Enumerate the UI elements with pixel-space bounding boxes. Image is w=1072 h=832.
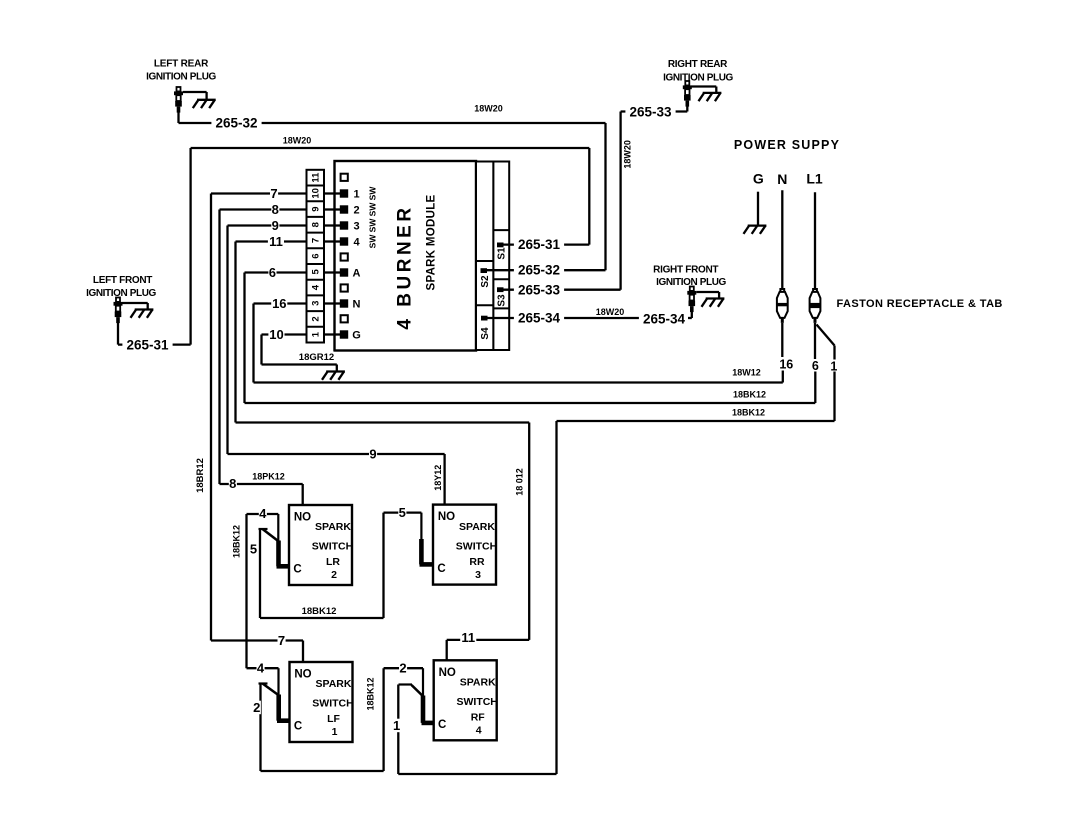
label 4 (LR) — [259, 507, 267, 521]
label 11 (at connector) — [268, 235, 284, 249]
svg-text:2: 2 — [253, 700, 260, 715]
svg-text:3: 3 — [311, 301, 322, 306]
svg-text:LR: LR — [326, 556, 340, 568]
label RIGHT FRONT — [653, 265, 726, 289]
svg-text:C: C — [438, 719, 446, 731]
label 8 (at connector) — [271, 203, 279, 217]
svg-text:18BR12: 18BR12 — [195, 458, 206, 493]
wire 16: horizontal into connector — [254, 302, 307, 304]
wire 9: horizontal into connector — [228, 224, 307, 226]
module output column (outer: S1/S3) — [493, 162, 509, 351]
svg-text:SW: SW — [368, 202, 378, 217]
label 10 (at connector) — [268, 328, 284, 342]
wire: left rear plug collar to ground — [183, 91, 207, 93]
svg-text:18GR12: 18GR12 — [299, 352, 334, 363]
wire 265-31: horizontal run y=148 — [191, 147, 590, 149]
switch lever RF (pivot tick + blade) — [399, 685, 424, 697]
svg-text:4 BURNER: 4 BURNER — [395, 204, 416, 329]
wire: L1 terminal down to faston — [814, 192, 816, 289]
svg-text:G: G — [352, 329, 361, 341]
wire 16: vertical run x=253.5 — [252, 304, 254, 383]
label LEFT FRONT — [86, 275, 156, 299]
label 265-33 (top) — [625, 105, 675, 119]
module output column (inner: S2/S4) — [476, 162, 493, 351]
svg-text:8: 8 — [311, 222, 322, 227]
svg-text:265-34: 265-34 — [643, 311, 686, 326]
switch box RF (SPARK SWITCH RF 4) — [434, 660, 497, 740]
pin S4 — [481, 316, 488, 321]
svg-text:3: 3 — [353, 220, 359, 232]
wire 8: corner to LR switch NO — [220, 483, 303, 485]
svg-text:4: 4 — [353, 236, 360, 248]
svg-text:7: 7 — [270, 186, 277, 201]
ground (module G pin, 18GR12) — [322, 372, 345, 380]
wire: RF terminal 2 — [384, 667, 423, 669]
wire: connector cell 5 to module pin — [324, 271, 340, 273]
svg-text:8: 8 — [229, 476, 236, 491]
svg-text:2: 2 — [311, 316, 322, 321]
wire 9: corner to RR switch NO (18Y12) — [228, 453, 445, 455]
wire 7: vertical run x=211 — [210, 194, 212, 641]
svg-text:N: N — [777, 171, 787, 187]
svg-text:NO: NO — [438, 511, 455, 523]
svg-text:SW: SW — [368, 186, 378, 201]
label 6 (at connector) — [268, 266, 276, 280]
svg-text:18W20: 18W20 — [596, 307, 625, 317]
node label 6 — [811, 359, 819, 372]
ignition plug LR (left rear) — [174, 87, 183, 113]
label 265-32 (top left) — [211, 116, 261, 130]
pin S3 — [497, 287, 504, 292]
svg-text:11: 11 — [311, 172, 322, 183]
svg-text:5: 5 — [311, 268, 322, 274]
ground (power supply G) — [744, 226, 767, 234]
wire 10: horizontal into connector — [262, 333, 307, 335]
wire: N faston to node 16 — [781, 323, 783, 357]
wire 265-32: vertical drop to S2 output — [604, 123, 606, 270]
svg-text:RIGHT FRONT: RIGHT FRONT — [653, 265, 718, 276]
svg-text:2: 2 — [331, 569, 337, 581]
wire 265-31: S1 output — [504, 243, 590, 245]
wire: L1 faston stub down — [814, 323, 816, 359]
ground (left front plug) — [131, 310, 154, 318]
label 1 (RF) — [393, 719, 401, 733]
wire: right rear plug tip down — [686, 106, 688, 111]
wire: left rear plug tip down — [177, 112, 179, 123]
wire 8: vertical run x=219.5 — [218, 210, 220, 485]
op module: 4 BURNER SPARK MODULE box — [335, 161, 477, 351]
pin (module, row 3, connected) — [340, 299, 348, 307]
label 9 (at connector) — [271, 219, 279, 233]
switch box RR (SPARK SWITCH RR 3) — [433, 505, 496, 585]
wire 18BK12: LR terminal 4 vertical (shared with LF) — [245, 514, 247, 668]
pin (module, row 4, open) — [341, 284, 348, 291]
svg-text:18BK12: 18BK12 — [732, 408, 765, 418]
wire 7: bottom horizontal to LF switch NO — [211, 639, 303, 641]
svg-text:4: 4 — [259, 506, 267, 521]
wire 265-33: plug tip to corner — [621, 110, 688, 112]
svg-text:11: 11 — [461, 630, 475, 645]
label 11 — [460, 631, 476, 645]
label 5 (RR) — [398, 506, 406, 520]
label 18GR12 — [299, 352, 334, 362]
wire 7: horizontal into connector — [211, 192, 307, 194]
label 9 — [369, 447, 377, 461]
wire 10: vertical run x=261.5 — [260, 335, 262, 365]
wire: RR terminal 5 — [384, 511, 422, 513]
label 265-32 (module output) — [514, 263, 564, 277]
wire 265-34: S4 output to right front plug — [487, 317, 688, 319]
svg-text:N: N — [353, 298, 361, 310]
wire: connector cell 1 to module pin — [324, 333, 340, 335]
ground (left rear plug) — [193, 100, 216, 108]
svg-text:10: 10 — [311, 188, 322, 199]
svg-text:10: 10 — [269, 327, 283, 342]
svg-text:265-32: 265-32 — [518, 263, 560, 278]
svg-text:SPARK: SPARK — [460, 677, 496, 689]
wire: G terminal down — [757, 192, 759, 225]
svg-text:6: 6 — [311, 254, 322, 259]
label 8 — [229, 477, 237, 491]
svg-text:RR: RR — [469, 556, 485, 568]
svg-text:IGNITION PLUG: IGNITION PLUG — [663, 73, 733, 84]
ground (right rear plug) — [699, 93, 722, 101]
svg-text:SPARK: SPARK — [316, 678, 352, 690]
svg-text:NO: NO — [439, 667, 456, 679]
svg-text:16: 16 — [272, 296, 286, 311]
label 265-31 (bottom left) — [122, 338, 172, 352]
pin (module, row 7, connected) — [340, 237, 348, 245]
svg-text:RF: RF — [471, 712, 486, 724]
switch box LF (SPARK SWITCH LF 1) — [290, 662, 353, 742]
svg-text:18BK12: 18BK12 — [366, 677, 376, 710]
svg-text:4: 4 — [311, 284, 322, 290]
wire 265-33: vertical drop to S3 output, labeled 18W20 — [619, 112, 621, 290]
wire 265-31: vertical drop to S1 output — [588, 148, 590, 245]
wire: LR terminal 4 — [247, 513, 279, 515]
wire 6: horizontal into connector — [245, 271, 307, 273]
wire: left front plug tip down — [117, 323, 119, 345]
svg-text:16: 16 — [779, 357, 793, 371]
svg-text:18Y12: 18Y12 — [433, 465, 443, 491]
wire: connector cell 7 to module pin — [324, 240, 340, 242]
faston receptacle (N line) — [777, 289, 788, 323]
svg-text:8: 8 — [272, 202, 279, 217]
svg-text:18PK12: 18PK12 — [252, 472, 285, 482]
wire 11: horizontal y=423.4 — [236, 421, 530, 423]
label 265-34 (at right front plug) — [639, 312, 689, 326]
wire 2: LF pivot down — [259, 684, 261, 772]
label 18BK12 (loop) — [301, 606, 336, 616]
wire: LF lever to C (thick) — [276, 695, 281, 721]
wire 18W12: N(16) to module pin row 3 (wire 16) — [254, 381, 783, 383]
wire: right rear plug collar to ground — [692, 85, 717, 87]
svg-text:265-34: 265-34 — [518, 311, 561, 326]
svg-text:11: 11 — [269, 234, 283, 249]
wire: left front plug collar to ground — [123, 302, 148, 304]
wire: right-side vertical x=556.5 down to bottom loop — [555, 421, 557, 774]
svg-text:265-33: 265-33 — [518, 282, 561, 297]
svg-text:LEFT FRONT: LEFT FRONT — [93, 275, 152, 286]
svg-text:265-33: 265-33 — [629, 105, 672, 120]
wire: LF terminal 4 — [247, 667, 279, 669]
svg-text:18W20: 18W20 — [622, 140, 632, 169]
wire: N terminal down to faston — [781, 190, 783, 289]
svg-text:1: 1 — [393, 718, 400, 733]
wire: RF terminal 2 drop — [422, 668, 424, 695]
svg-text:SW: SW — [368, 234, 378, 249]
svg-text:NO: NO — [294, 512, 311, 524]
wire 11: vertical run x=235.5 — [234, 242, 236, 423]
svg-text:SWITCH: SWITCH — [312, 541, 353, 553]
svg-text:1: 1 — [353, 188, 359, 200]
ignition plug LF (left front) — [114, 298, 123, 324]
label 265-33 (module output) — [514, 283, 564, 297]
svg-text:18BK12: 18BK12 — [302, 606, 337, 617]
svg-text:1: 1 — [311, 331, 322, 337]
svg-text:SPARK: SPARK — [315, 521, 351, 533]
wire 9: vertical run x=227.5 — [226, 226, 228, 455]
svg-text:NO: NO — [294, 669, 311, 681]
svg-text:1: 1 — [830, 359, 837, 373]
ignition plug RR (right rear) — [683, 81, 692, 107]
wire: connector cell 3 to module pin — [324, 302, 340, 304]
node label 16 — [779, 358, 795, 371]
svg-text:FASTON RECEPTACLE & TAB: FASTON RECEPTACLE & TAB — [837, 298, 1003, 310]
svg-text:9: 9 — [311, 206, 322, 211]
svg-text:2: 2 — [399, 660, 406, 675]
wire 265-32: plug to spark module S2, horizontal run y=123 — [179, 122, 606, 124]
label 2 (RF) — [399, 661, 407, 675]
svg-text:G: G — [753, 171, 764, 187]
wire 10 (18GR12): to ground below module — [262, 363, 337, 365]
svg-text:7: 7 — [311, 238, 322, 243]
svg-text:265-31: 265-31 — [126, 338, 169, 353]
ignition plug RF (right front) — [687, 287, 696, 313]
svg-text:6: 6 — [812, 359, 819, 373]
svg-text:S3: S3 — [497, 294, 508, 307]
switch lever LF (pivot tick + blade) — [259, 684, 280, 696]
wire 11: right vertical x=529.2 (18 012) — [528, 423, 530, 640]
wire: RF 1 bottom loop to right vertical — [398, 773, 556, 775]
pin (module, row 5, connected) — [340, 268, 348, 276]
svg-text:C: C — [294, 721, 302, 733]
svg-text:1: 1 — [332, 726, 338, 738]
switch box LR (SPARK SWITCH LR 2) — [289, 505, 352, 585]
svg-text:SWITCH: SWITCH — [456, 540, 497, 552]
svg-text:L1: L1 — [806, 170, 823, 186]
wire: RF lever to C (thick) — [421, 696, 426, 723]
wire 6: vertical run x=244.5 — [243, 273, 245, 404]
svg-text:2: 2 — [353, 204, 359, 216]
wire: L1 faston diagonal branch to node 1 — [817, 325, 835, 346]
svg-text:5: 5 — [250, 542, 257, 557]
label 265-31 (module output) — [514, 237, 564, 251]
svg-text:IGNITION PLUG: IGNITION PLUG — [86, 288, 156, 299]
svg-text:SW: SW — [368, 218, 378, 233]
svg-text:S4: S4 — [480, 327, 491, 340]
pin (module, row 6, open) — [341, 253, 348, 260]
svg-text:RIGHT REAR: RIGHT REAR — [668, 59, 728, 70]
connector strip (11 cells) — [307, 170, 325, 343]
wire 11: bottom horizontal to RF switch NO — [447, 639, 530, 641]
wire: LF 2 bottom loop to RF terminal 2 — [261, 770, 384, 772]
pin (module, row 2, open) — [341, 315, 348, 322]
wire 1: RF pivot down — [397, 685, 399, 775]
svg-text:4: 4 — [257, 660, 265, 675]
svg-text:C: C — [437, 563, 445, 575]
label LEFT REAR — [146, 59, 216, 83]
svg-text:18W20: 18W20 — [283, 136, 312, 146]
wire 18BK12: node 1 to RF switch loop — [557, 420, 835, 422]
wire 8: horizontal into connector — [220, 208, 307, 210]
svg-text:3: 3 — [475, 569, 481, 581]
wire 18BK12: LR pivot to RR (bottom loop) — [260, 617, 384, 619]
svg-text:SPARK MODULE: SPARK MODULE — [426, 194, 438, 290]
label 7 — [278, 634, 286, 648]
pin S1 — [497, 243, 504, 248]
svg-text:LF: LF — [327, 713, 340, 725]
wire: connector cell 8 to module pin — [324, 224, 340, 226]
wire 265-33: S3 output — [504, 289, 621, 291]
wire: LR lever to C (thick) — [276, 541, 281, 567]
pin (module, row 9, connected) — [340, 205, 348, 213]
svg-text:IGNITION PLUG: IGNITION PLUG — [146, 72, 216, 83]
ground (right front plug) — [702, 299, 725, 307]
pin S2 — [481, 268, 488, 273]
wire 11: horizontal into connector — [236, 240, 307, 242]
svg-text:SPARK: SPARK — [459, 521, 495, 533]
svg-text:265-32: 265-32 — [215, 116, 257, 131]
wire: RR 5 drop to C (thick lower) — [420, 513, 422, 540]
pin (module, row 1, connected) — [340, 330, 348, 338]
switch lever LR (pivot tick + blade) — [259, 529, 279, 542]
label 265-34 (module output) — [514, 311, 564, 325]
label 7 (at connector) — [270, 187, 278, 201]
svg-text:S1: S1 — [497, 247, 508, 260]
svg-text:C: C — [293, 564, 301, 576]
wire: node 1 down to 18BK12 corner — [833, 372, 835, 422]
svg-text:18 012: 18 012 — [515, 468, 525, 496]
wire 5: LR pivot down — [259, 529, 261, 618]
wire: node 16 down to 18W12 corner — [782, 371, 784, 383]
wire 18BK12: L1(6) to module pin row 5 (wire 6) — [245, 402, 816, 404]
wire: LF terminal 4 drop — [277, 668, 279, 694]
svg-text:5: 5 — [399, 505, 406, 520]
svg-text:SWITCH: SWITCH — [456, 696, 497, 708]
pin (module, row 10, connected) — [340, 189, 348, 197]
wire 265-32: S2 output — [487, 269, 606, 271]
label 16 (at connector) — [271, 297, 287, 311]
svg-text:POWER SUPPY: POWER SUPPY — [734, 138, 840, 152]
svg-text:SWITCH: SWITCH — [312, 698, 353, 710]
svg-text:9: 9 — [369, 447, 376, 462]
label 18W20 (on 265-34 wire) — [596, 307, 624, 316]
node label 1 — [830, 360, 838, 373]
svg-text:18W12: 18W12 — [732, 368, 761, 378]
pin (module, row 11, open) — [341, 174, 348, 181]
wire: right front plug collar to ground — [696, 291, 719, 293]
svg-text:A: A — [353, 267, 361, 279]
svg-text:7: 7 — [278, 633, 285, 648]
wire: connector cell 9 to module pin — [324, 208, 340, 210]
svg-text:9: 9 — [272, 218, 279, 233]
svg-text:265-31: 265-31 — [518, 237, 561, 252]
label 4 (LF) — [257, 661, 265, 675]
svg-text:LEFT REAR: LEFT REAR — [154, 59, 209, 70]
wire 265-31: left vertical x=190.6 — [189, 148, 191, 345]
svg-text:18BK12: 18BK12 — [733, 390, 766, 400]
svg-text:4: 4 — [476, 725, 482, 737]
wire 265-31: plug to left vertical — [118, 343, 191, 345]
wire: node 6 down to 18BK12 corner — [814, 372, 816, 404]
faston receptacle (L1 line) — [810, 289, 821, 323]
svg-text:18W20: 18W20 — [474, 104, 503, 114]
wire: LR terminal 4 drop — [277, 514, 279, 541]
svg-text:18BK12: 18BK12 — [232, 525, 242, 558]
pin labels SW SW SW SW — [368, 186, 378, 249]
svg-text:S2: S2 — [480, 275, 491, 288]
pin (module, row 8, connected) — [340, 221, 348, 229]
label RIGHT REAR — [663, 59, 733, 84]
wire: right front plug tip to 265-34 wire — [691, 312, 693, 318]
svg-text:6: 6 — [269, 265, 276, 280]
label 2 (LF) — [253, 701, 261, 715]
wire: connector cell 10 to module pin — [324, 192, 340, 194]
